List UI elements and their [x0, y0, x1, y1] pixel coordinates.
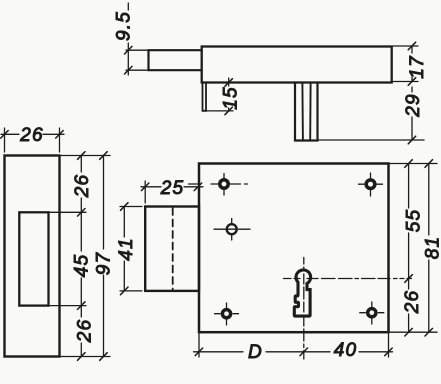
dimension 26 strike width: [1, 128, 64, 152]
svg-text:55: 55: [404, 209, 425, 233]
svg-text:15: 15: [221, 86, 242, 110]
svg-text:26: 26: [74, 319, 95, 344]
svg-text:40: 40: [334, 340, 358, 361]
keyhole center lines: [284, 258, 412, 360]
svg-text:81: 81: [423, 236, 441, 260]
strike plate hole: [19, 212, 48, 305]
dimension 9.5: [125, 3, 149, 75]
hole bottom-left: [215, 303, 239, 325]
hole top-right: [359, 173, 383, 196]
dimension 55/26 chain: [405, 160, 413, 336]
svg-text:25: 25: [160, 178, 185, 199]
dimension 17: [393, 42, 418, 85]
svg-text:9.5: 9.5: [114, 11, 135, 41]
side view center post: [295, 83, 318, 141]
dimension D / 40: [194, 334, 393, 357]
side view lock body: [202, 47, 392, 83]
hole top-left: [189, 174, 248, 196]
hole mid-left: [214, 219, 250, 241]
svg-text:29: 29: [403, 93, 424, 118]
main lock plate: [199, 164, 389, 333]
dimension 15: [207, 78, 234, 115]
strike plate outer: [5, 156, 60, 357]
svg-text:97: 97: [94, 252, 115, 276]
dimension 29: [319, 87, 425, 144]
extension lines right of plate: [390, 164, 437, 333]
svg-text:45: 45: [72, 254, 93, 278]
dimension 81: [425, 160, 433, 336]
svg-text:D: D: [248, 342, 263, 363]
svg-text:26: 26: [19, 125, 44, 146]
extension lines strike right: [50, 156, 111, 357]
svg-text:26: 26: [402, 290, 423, 315]
side view center post inner lines: [302, 84, 310, 140]
dimension 97: [100, 152, 108, 361]
svg-text:26: 26: [72, 174, 93, 199]
dimension chain 26/45/26 strike: [78, 152, 86, 361]
dimension 25: [141, 181, 203, 203]
side view left tab: [203, 83, 207, 111]
dimension 41: [120, 203, 142, 295]
bolt front dashed line: [172, 208, 174, 290]
svg-text:41: 41: [116, 237, 137, 261]
bolt front view: [145, 207, 199, 291]
side view bolt: [149, 50, 202, 70]
svg-text:17: 17: [407, 55, 428, 79]
keyhole: [294, 270, 310, 316]
hole bottom-right: [360, 302, 384, 324]
